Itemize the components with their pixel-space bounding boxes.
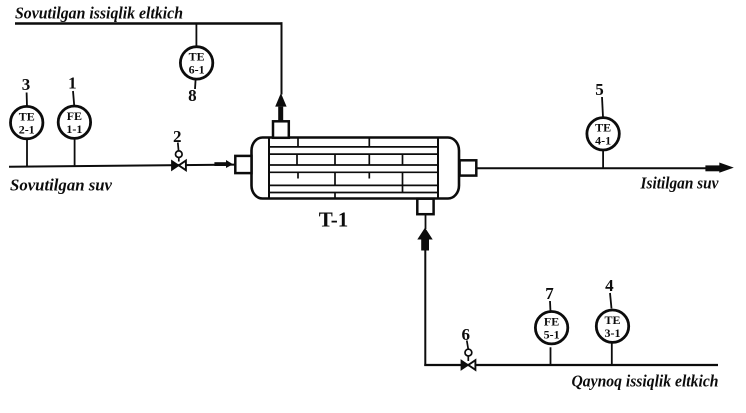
svg-text:6-1: 6-1 [189,63,205,77]
arrow into left nozzle [214,160,233,168]
instrument TE 6-1 [180,24,212,90]
svg-text:5-1: 5-1 [544,327,560,341]
wire hot water outlet line [476,167,706,169]
wire top drop to exchanger [281,22,283,94]
instrument FE 5-1 [535,301,567,365]
svg-text:FE: FE [544,314,559,328]
svg-text:4: 4 [605,276,614,295]
svg-text:1: 1 [68,74,77,93]
svg-text:TE: TE [604,313,620,327]
svg-text:Qaynoq issiqlik eltkich: Qaynoq issiqlik eltkich [572,372,719,391]
tube sheet right [437,138,439,199]
svg-text:6: 6 [461,325,470,344]
valve 6 [461,341,475,370]
svg-text:4-1: 4-1 [595,133,611,147]
wire hot carrier riser [424,250,426,366]
instrument TE 3-1 [596,293,628,365]
nozzle bottom [417,199,433,215]
instrument TE 4-1 [587,97,619,168]
svg-text:TE: TE [189,50,205,64]
svg-text:7: 7 [545,284,554,303]
svg-text:1-1: 1-1 [66,122,82,136]
outlet arrow right [705,163,733,173]
tube lines [269,147,438,193]
nozzle top [273,121,289,138]
svg-text:TE: TE [19,109,35,123]
valve 2 [172,143,186,171]
svg-text:2-1: 2-1 [19,122,35,136]
svg-text:FE: FE [67,109,82,123]
svg-text:3-1: 3-1 [605,326,621,340]
svg-text:Sovutilgan suv: Sovutilgan suv [10,176,112,195]
svg-text:Isitilgan suv: Isitilgan suv [640,174,719,193]
nozzle left [235,156,251,173]
instrument TE 2-1 [11,93,43,167]
flow arrow up into bottom nozzle [417,214,432,251]
svg-text:5: 5 [595,80,604,99]
svg-text:Sovutilgan issiqlik eltkich: Sovutilgan issiqlik eltkich [15,4,183,23]
svg-text:T-1: T-1 [319,207,349,231]
flow arrow up from top nozzle [275,93,286,121]
wire top header line [15,22,283,25]
tube sheet left [268,138,270,199]
wire cold water inlet line [9,165,236,167]
svg-text:3: 3 [22,75,31,94]
tube baffle ticks [297,138,403,199]
svg-text:TE: TE [595,120,611,134]
instrument FE 1-1 [58,91,90,166]
svg-text:8: 8 [188,86,197,105]
wire hot carrier bottom line [424,364,718,366]
nozzle right [460,160,477,175]
heat exchanger T-1 shell [252,138,460,199]
